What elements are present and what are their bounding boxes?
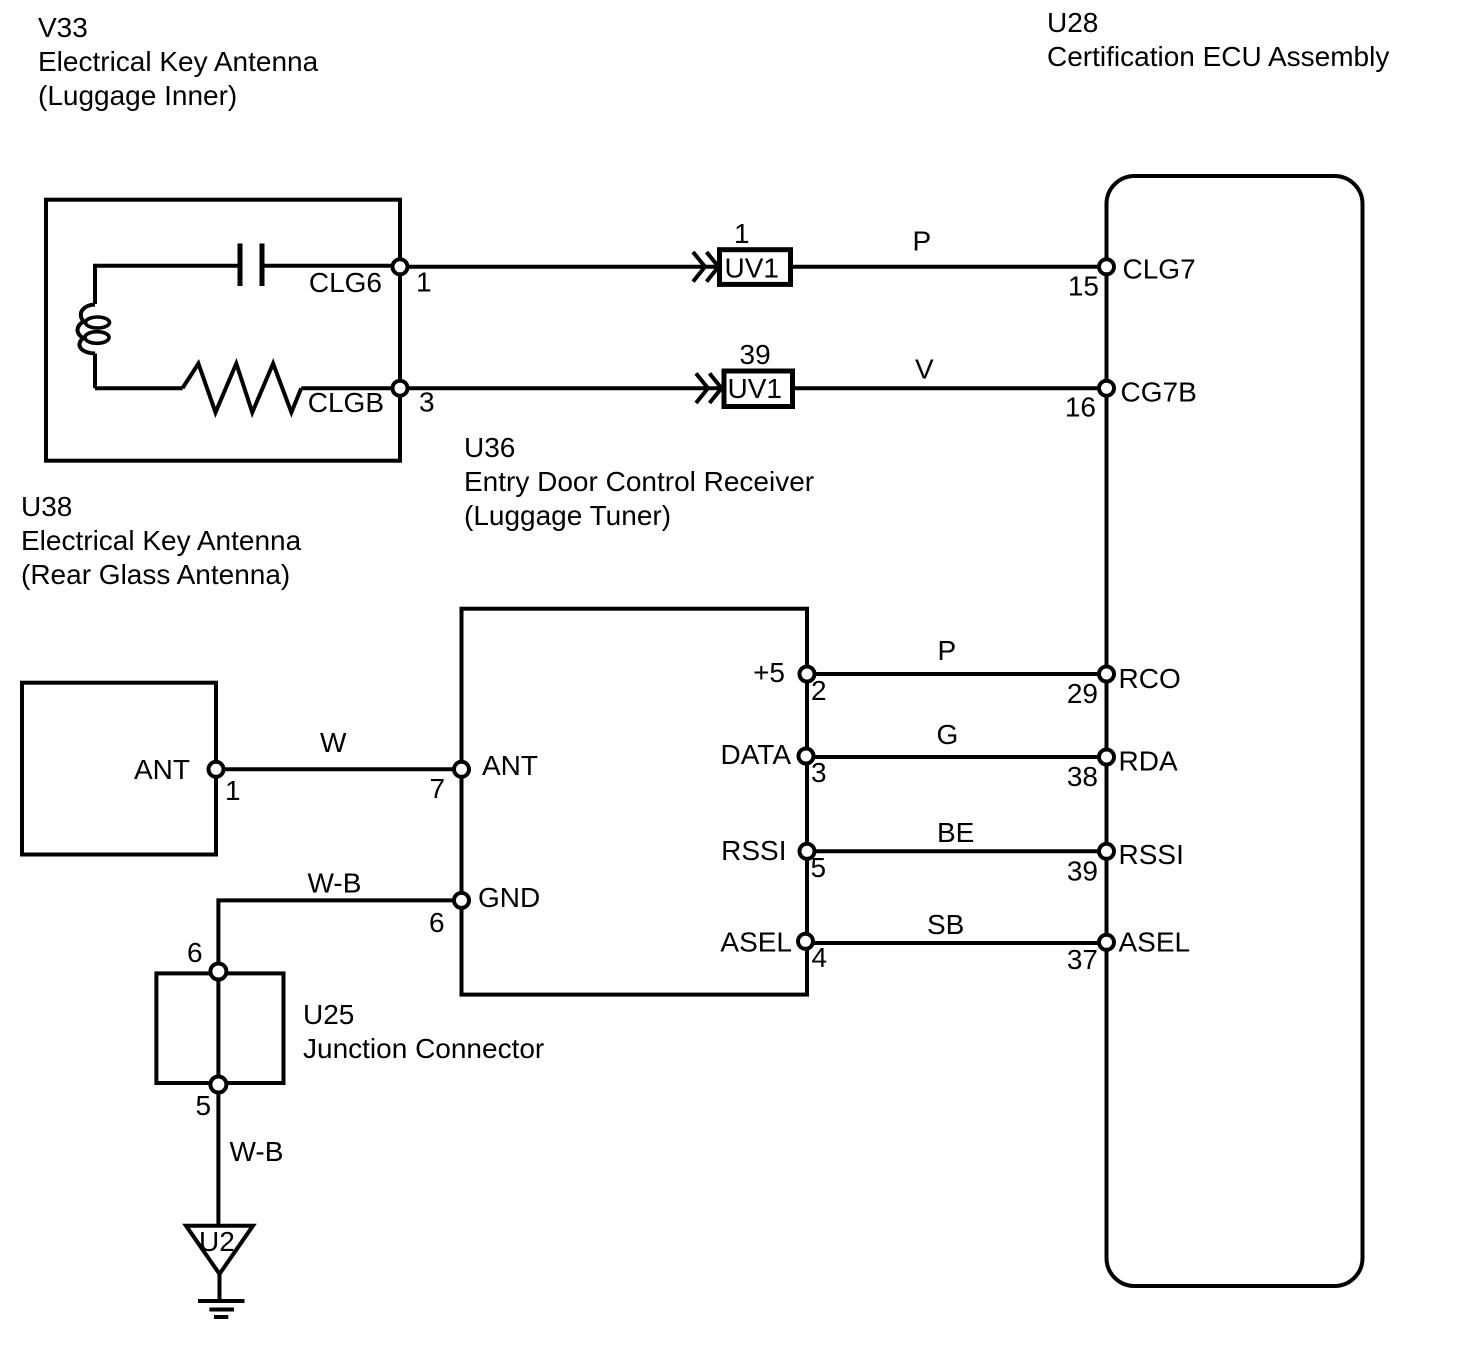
svg-text:U2: U2 [199, 1226, 235, 1257]
svg-text:38: 38 [1067, 761, 1098, 792]
svg-text:(Luggage Tuner): (Luggage Tuner) [464, 500, 671, 531]
svg-text:U28: U28 [1047, 7, 1098, 38]
svg-text:15: 15 [1068, 271, 1099, 302]
svg-text:DATA: DATA [720, 739, 791, 770]
svg-text:BE: BE [937, 817, 974, 848]
svg-text:W-B: W-B [308, 868, 362, 899]
svg-text:UV1: UV1 [728, 373, 782, 404]
svg-text:CG7B: CG7B [1121, 377, 1197, 408]
svg-text:(Luggage Inner): (Luggage Inner) [38, 80, 237, 111]
svg-text:W: W [320, 727, 347, 758]
svg-text:CLGB: CLGB [308, 387, 384, 418]
svg-text:Electrical Key Antenna: Electrical Key Antenna [21, 525, 302, 556]
svg-text:RDA: RDA [1119, 746, 1178, 777]
svg-text:7: 7 [430, 773, 446, 804]
svg-text:W-B: W-B [230, 1136, 284, 1167]
svg-text:ANT: ANT [134, 754, 190, 785]
svg-text:RSSI: RSSI [721, 835, 786, 866]
svg-text:6: 6 [187, 937, 203, 968]
svg-text:G: G [937, 719, 959, 750]
svg-text:ASEL: ASEL [1119, 927, 1191, 958]
svg-text:P: P [938, 635, 957, 666]
svg-text:U25: U25 [303, 999, 354, 1030]
svg-text:3: 3 [811, 757, 827, 788]
svg-text:Junction Connector: Junction Connector [303, 1033, 544, 1064]
svg-text:ANT: ANT [482, 750, 538, 781]
svg-text:29: 29 [1067, 678, 1098, 709]
svg-text:UV1: UV1 [725, 253, 779, 284]
svg-text:Certification ECU Assembly: Certification ECU Assembly [1047, 41, 1389, 72]
svg-text:4: 4 [812, 942, 828, 973]
svg-text:Electrical Key Antenna: Electrical Key Antenna [38, 46, 319, 77]
svg-text:P: P [913, 226, 932, 257]
svg-text:GND: GND [478, 882, 540, 913]
svg-text:5: 5 [196, 1090, 212, 1121]
svg-text:3: 3 [419, 387, 435, 418]
svg-text:39: 39 [1067, 856, 1098, 887]
svg-text:16: 16 [1065, 392, 1096, 423]
svg-text:SB: SB [927, 909, 964, 940]
svg-text:ASEL: ASEL [720, 927, 792, 958]
svg-text:CLG7: CLG7 [1123, 254, 1196, 285]
svg-text:1: 1 [734, 218, 750, 249]
svg-text:RCO: RCO [1119, 663, 1181, 694]
svg-text:V: V [915, 354, 934, 385]
svg-text:CLG6: CLG6 [309, 267, 382, 298]
svg-text:2: 2 [811, 675, 827, 706]
svg-text:39: 39 [740, 339, 771, 370]
svg-text:U38: U38 [21, 491, 72, 522]
svg-text:U36: U36 [464, 432, 515, 463]
svg-text:6: 6 [429, 907, 445, 938]
svg-text:1: 1 [225, 775, 241, 806]
svg-text:V33: V33 [38, 12, 88, 43]
svg-text:RSSI: RSSI [1119, 839, 1184, 870]
svg-text:(Rear Glass Antenna): (Rear Glass Antenna) [21, 559, 290, 590]
svg-text:5: 5 [811, 852, 827, 883]
svg-text:1: 1 [416, 267, 432, 298]
svg-text:+5: +5 [753, 657, 785, 688]
svg-text:Entry Door Control Receiver: Entry Door Control Receiver [464, 466, 814, 497]
svg-text:37: 37 [1067, 944, 1098, 975]
